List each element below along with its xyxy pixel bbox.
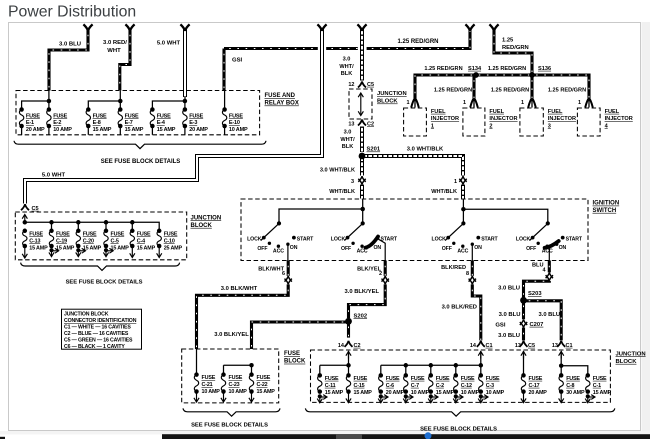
- svg-text:SEE FUSE BLOCK DETAILS: SEE FUSE BLOCK DETAILS: [191, 422, 268, 428]
- svg-text:15 AMP: 15 AMP: [56, 245, 75, 251]
- svg-text:3.0: 3.0: [343, 57, 351, 63]
- svg-text:ACC: ACC: [273, 249, 284, 255]
- svg-text:1: 1: [431, 123, 434, 129]
- svg-text:C-4: C-4: [137, 238, 145, 244]
- svg-text:3.0 BLU: 3.0 BLU: [539, 312, 561, 318]
- svg-text:JUNCTION BLOCK: JUNCTION BLOCK: [64, 312, 109, 318]
- svg-text:FUSE: FUSE: [436, 376, 450, 382]
- svg-text:15 AMP: 15 AMP: [93, 127, 112, 133]
- svg-text:BLOCK: BLOCK: [191, 223, 213, 229]
- svg-text:3.0 BLK/RED: 3.0 BLK/RED: [442, 305, 477, 311]
- svg-text:SEE FUSE BLOCK DETAILS: SEE FUSE BLOCK DETAILS: [66, 280, 143, 286]
- svg-text:C-19: C-19: [56, 238, 67, 244]
- svg-text:1: 1: [521, 100, 524, 106]
- svg-text:C5: C5: [528, 343, 535, 349]
- svg-text:1.25: 1.25: [502, 38, 514, 44]
- svg-text:INJECTOR: INJECTOR: [489, 116, 517, 122]
- svg-text:E-8: E-8: [93, 120, 101, 126]
- svg-text:C-10: C-10: [164, 238, 175, 244]
- svg-text:10 AMP: 10 AMP: [202, 389, 221, 395]
- svg-text:10 AMP: 10 AMP: [461, 390, 480, 396]
- svg-text:1.25 RED/GRN: 1.25 RED/GRN: [424, 66, 462, 72]
- svg-text:3.0: 3.0: [344, 130, 352, 136]
- svg-text:C-20: C-20: [83, 238, 94, 244]
- svg-text:JUNCTION: JUNCTION: [191, 215, 222, 221]
- svg-text:3.0 BLU: 3.0 BLU: [499, 312, 521, 318]
- svg-text:FUSE: FUSE: [125, 113, 139, 119]
- svg-text:20 AMP: 20 AMP: [529, 390, 548, 396]
- svg-text:12: 12: [348, 82, 354, 88]
- svg-text:CONNECTOR IDENTIFICATION: CONNECTOR IDENTIFICATION: [64, 318, 137, 324]
- svg-text:FUEL: FUEL: [605, 109, 620, 115]
- svg-text:FUSE: FUSE: [26, 113, 40, 119]
- svg-text:3.0 BLK/YEL: 3.0 BLK/YEL: [214, 332, 249, 338]
- svg-text:SWITCH: SWITCH: [593, 208, 617, 214]
- svg-text:BLK/WHT: BLK/WHT: [258, 266, 284, 272]
- svg-text:C6 — BLACK — 1 CAVITY: C6 — BLACK — 1 CAVITY: [64, 344, 125, 350]
- svg-text:C5: C5: [32, 206, 39, 212]
- svg-text:1: 1: [454, 179, 457, 185]
- svg-text:S201: S201: [367, 147, 381, 153]
- svg-text:LOCK: LOCK: [516, 236, 531, 242]
- svg-text:15 AMP: 15 AMP: [29, 245, 48, 251]
- svg-text:3: 3: [351, 179, 354, 185]
- svg-text:WHT/BLK: WHT/BLK: [329, 189, 355, 195]
- svg-text:E-3: E-3: [189, 120, 197, 126]
- svg-text:13: 13: [348, 121, 354, 127]
- svg-text:C2: C2: [367, 121, 374, 127]
- svg-text:JUNCTION: JUNCTION: [616, 351, 646, 357]
- svg-text:3.0 BLU: 3.0 BLU: [59, 41, 81, 47]
- svg-text:15 AMP: 15 AMP: [137, 245, 156, 251]
- svg-text:C-22: C-22: [257, 382, 268, 388]
- svg-text:SEE FUSE BLOCK DETAILS: SEE FUSE BLOCK DETAILS: [101, 159, 181, 165]
- svg-text:FUEL: FUEL: [431, 109, 446, 115]
- svg-text:OFF: OFF: [442, 246, 452, 252]
- svg-text:START: START: [566, 236, 583, 242]
- svg-text:ON: ON: [374, 245, 382, 251]
- svg-text:FUSE: FUSE: [411, 376, 425, 382]
- svg-text:FUSE: FUSE: [29, 231, 43, 237]
- svg-text:3: 3: [548, 123, 551, 129]
- svg-text:S203: S203: [528, 291, 542, 297]
- svg-text:C1: C1: [486, 343, 493, 349]
- svg-text:C-13: C-13: [29, 238, 40, 244]
- svg-text:FUSE: FUSE: [137, 231, 151, 237]
- svg-text:6: 6: [282, 271, 285, 277]
- svg-text:WHT/BLK: WHT/BLK: [431, 189, 457, 195]
- svg-text:INJECTOR: INJECTOR: [431, 116, 459, 122]
- svg-text:15 AMP: 15 AMP: [354, 390, 373, 396]
- svg-text:LOCK: LOCK: [432, 236, 447, 242]
- svg-text:1.25 RED/GRN: 1.25 RED/GRN: [491, 88, 529, 94]
- svg-text:INJECTOR: INJECTOR: [605, 116, 633, 122]
- svg-text:FUEL: FUEL: [548, 109, 563, 115]
- svg-text:START: START: [481, 236, 498, 242]
- svg-text:1.25 RED/GRN: 1.25 RED/GRN: [397, 39, 438, 45]
- svg-text:E-1: E-1: [26, 120, 34, 126]
- svg-text:WHT/: WHT/: [339, 64, 354, 70]
- svg-text:14: 14: [470, 343, 477, 349]
- svg-text:FUSE: FUSE: [566, 376, 580, 382]
- svg-text:BLOCK: BLOCK: [284, 359, 306, 365]
- svg-text:C207: C207: [530, 322, 544, 328]
- svg-text:20 AMP: 20 AMP: [26, 127, 45, 133]
- svg-text:1: 1: [463, 100, 466, 106]
- svg-text:FUSE: FUSE: [83, 231, 97, 237]
- svg-text:BLK: BLK: [341, 71, 353, 77]
- svg-text:RED/GRN: RED/GRN: [502, 45, 529, 51]
- svg-text:C5: C5: [367, 82, 374, 88]
- svg-text:ON: ON: [290, 245, 298, 251]
- svg-text:1.25 RED/GRN: 1.25 RED/GRN: [548, 88, 586, 94]
- svg-text:15 AMP: 15 AMP: [125, 127, 144, 133]
- svg-text:FUSE: FUSE: [386, 376, 400, 382]
- svg-text:8: 8: [466, 271, 469, 277]
- svg-text:C-23: C-23: [229, 382, 240, 388]
- svg-text:C2 — BLUE — 16 CAVITIES: C2 — BLUE — 16 CAVITIES: [64, 331, 129, 337]
- svg-text:10 AMP: 10 AMP: [486, 390, 505, 396]
- svg-text:Power Distribution: Power Distribution: [8, 4, 136, 21]
- svg-text:15 AMP: 15 AMP: [593, 390, 612, 396]
- svg-text:C5 — GREEN — 16 CAVITIES: C5 — GREEN — 16 CAVITIES: [64, 337, 133, 343]
- svg-text:WHT/: WHT/: [340, 137, 355, 143]
- svg-text:10 AMP: 10 AMP: [229, 389, 248, 395]
- svg-text:E-10: E-10: [229, 120, 240, 126]
- svg-text:FUSE: FUSE: [157, 113, 171, 119]
- svg-text:FUSE: FUSE: [229, 113, 243, 119]
- svg-text:C-1: C-1: [593, 383, 601, 389]
- svg-text:3.0 BLU: 3.0 BLU: [498, 286, 520, 292]
- svg-text:1: 1: [578, 100, 581, 106]
- svg-text:3.0 BLK/YEL: 3.0 BLK/YEL: [345, 289, 380, 295]
- svg-text:FUSE: FUSE: [202, 375, 216, 381]
- svg-text:FUSE: FUSE: [486, 376, 500, 382]
- svg-text:E-2: E-2: [53, 120, 61, 126]
- svg-text:FUSE: FUSE: [461, 376, 475, 382]
- svg-text:C-5: C-5: [111, 238, 119, 244]
- svg-text:BLK/RED: BLK/RED: [441, 265, 466, 271]
- svg-text:C-11: C-11: [325, 383, 336, 389]
- svg-text:GSI: GSI: [232, 58, 243, 64]
- svg-text:15 AMP: 15 AMP: [83, 245, 102, 251]
- svg-text:3.0 RED/: 3.0 RED/: [103, 40, 127, 46]
- svg-text:C-3: C-3: [486, 383, 494, 389]
- svg-text:C-17: C-17: [529, 383, 540, 389]
- svg-text:10 AMP: 10 AMP: [53, 127, 72, 133]
- svg-text:2: 2: [489, 123, 492, 129]
- svg-text:FUSE: FUSE: [189, 113, 203, 119]
- svg-text:15 AMP: 15 AMP: [436, 390, 455, 396]
- svg-text:START: START: [297, 236, 314, 242]
- svg-text:LOCK: LOCK: [331, 236, 346, 242]
- svg-text:BLK: BLK: [342, 144, 354, 150]
- svg-text:5.0 WHT: 5.0 WHT: [157, 40, 181, 46]
- svg-text:FUSE: FUSE: [111, 231, 125, 237]
- svg-text:20 AMP: 20 AMP: [189, 127, 208, 133]
- svg-text:JUNCTION: JUNCTION: [377, 91, 407, 97]
- svg-text:S134: S134: [468, 66, 482, 72]
- svg-text:C-2: C-2: [436, 383, 444, 389]
- svg-text:E-4: E-4: [157, 120, 166, 126]
- svg-text:GSI: GSI: [495, 322, 506, 328]
- svg-text:LOCK: LOCK: [247, 236, 262, 242]
- svg-text:1.25 RED/GRN: 1.25 RED/GRN: [488, 66, 526, 72]
- svg-text:BLOCK: BLOCK: [377, 99, 398, 105]
- svg-text:BLOCK: BLOCK: [616, 359, 638, 365]
- svg-text:3.0 WHT/BLK: 3.0 WHT/BLK: [407, 146, 444, 152]
- svg-text:BLK/YEL: BLK/YEL: [357, 266, 382, 272]
- svg-text:OFF: OFF: [526, 246, 536, 252]
- svg-text:15 AMP: 15 AMP: [111, 245, 130, 251]
- svg-text:1: 1: [406, 100, 409, 106]
- svg-text:S136: S136: [538, 66, 551, 72]
- svg-text:3.0 BLK/WHT: 3.0 BLK/WHT: [221, 286, 258, 292]
- svg-text:14: 14: [338, 343, 345, 349]
- svg-text:OFF: OFF: [257, 246, 267, 252]
- svg-text:C-7: C-7: [411, 383, 419, 389]
- svg-text:C1: C1: [566, 343, 573, 349]
- svg-text:20 AMP: 20 AMP: [386, 390, 405, 396]
- svg-text:10 AMP: 10 AMP: [229, 127, 248, 133]
- svg-text:S202: S202: [354, 313, 368, 319]
- svg-text:E-7: E-7: [125, 120, 133, 126]
- svg-text:C-12: C-12: [461, 383, 472, 389]
- svg-text:FUSE: FUSE: [56, 231, 70, 237]
- svg-text:FUSE: FUSE: [53, 113, 67, 119]
- svg-text:FUSE AND: FUSE AND: [265, 93, 296, 99]
- svg-text:1.25 RED/GRN: 1.25 RED/GRN: [434, 88, 472, 94]
- svg-text:C1 — WHITE — 16 CAVITIES: C1 — WHITE — 16 CAVITIES: [64, 325, 131, 331]
- svg-text:10 AMP: 10 AMP: [411, 390, 430, 396]
- svg-text:C2: C2: [354, 343, 361, 349]
- svg-text:3.0 BLU: 3.0 BLU: [498, 333, 520, 339]
- svg-text:C-8: C-8: [566, 383, 574, 389]
- svg-text:FUSE: FUSE: [529, 376, 543, 382]
- svg-text:15 AMP: 15 AMP: [325, 390, 344, 396]
- svg-text:FUSE: FUSE: [354, 376, 368, 382]
- svg-text:ACC: ACC: [542, 249, 553, 255]
- svg-text:FUEL: FUEL: [489, 109, 504, 115]
- svg-text:FUSE: FUSE: [593, 376, 607, 382]
- svg-text:FUSE: FUSE: [93, 113, 107, 119]
- svg-text:RELAY BOX: RELAY BOX: [265, 101, 299, 107]
- svg-text:C-15: C-15: [354, 383, 365, 389]
- svg-text:ON: ON: [474, 245, 482, 251]
- svg-text:ACC: ACC: [357, 249, 368, 255]
- svg-text:FUSE: FUSE: [229, 375, 243, 381]
- svg-text:FUSE: FUSE: [325, 376, 339, 382]
- svg-text:2: 2: [379, 271, 382, 277]
- svg-text:15 AMP: 15 AMP: [157, 127, 176, 133]
- svg-text:FUSE: FUSE: [257, 375, 271, 381]
- svg-text:5.0 WHT: 5.0 WHT: [42, 173, 66, 179]
- svg-text:25 AMP: 25 AMP: [164, 245, 183, 251]
- svg-text:INJECTOR: INJECTOR: [548, 116, 576, 122]
- svg-text:ON: ON: [559, 245, 567, 251]
- svg-text:WHT: WHT: [107, 48, 121, 54]
- svg-text:FUSE: FUSE: [164, 231, 178, 237]
- svg-text:C-6: C-6: [386, 383, 394, 389]
- svg-text:3.0 WHT/BLK: 3.0 WHT/BLK: [320, 167, 355, 173]
- svg-text:30 AMP: 30 AMP: [566, 390, 585, 396]
- svg-text:IGNITION: IGNITION: [593, 201, 620, 207]
- svg-text:OFF: OFF: [341, 246, 351, 252]
- svg-text:C-21: C-21: [202, 382, 213, 388]
- svg-text:ACC: ACC: [457, 249, 468, 255]
- svg-text:FUSE: FUSE: [284, 351, 300, 357]
- svg-text:15 AMP: 15 AMP: [257, 389, 276, 395]
